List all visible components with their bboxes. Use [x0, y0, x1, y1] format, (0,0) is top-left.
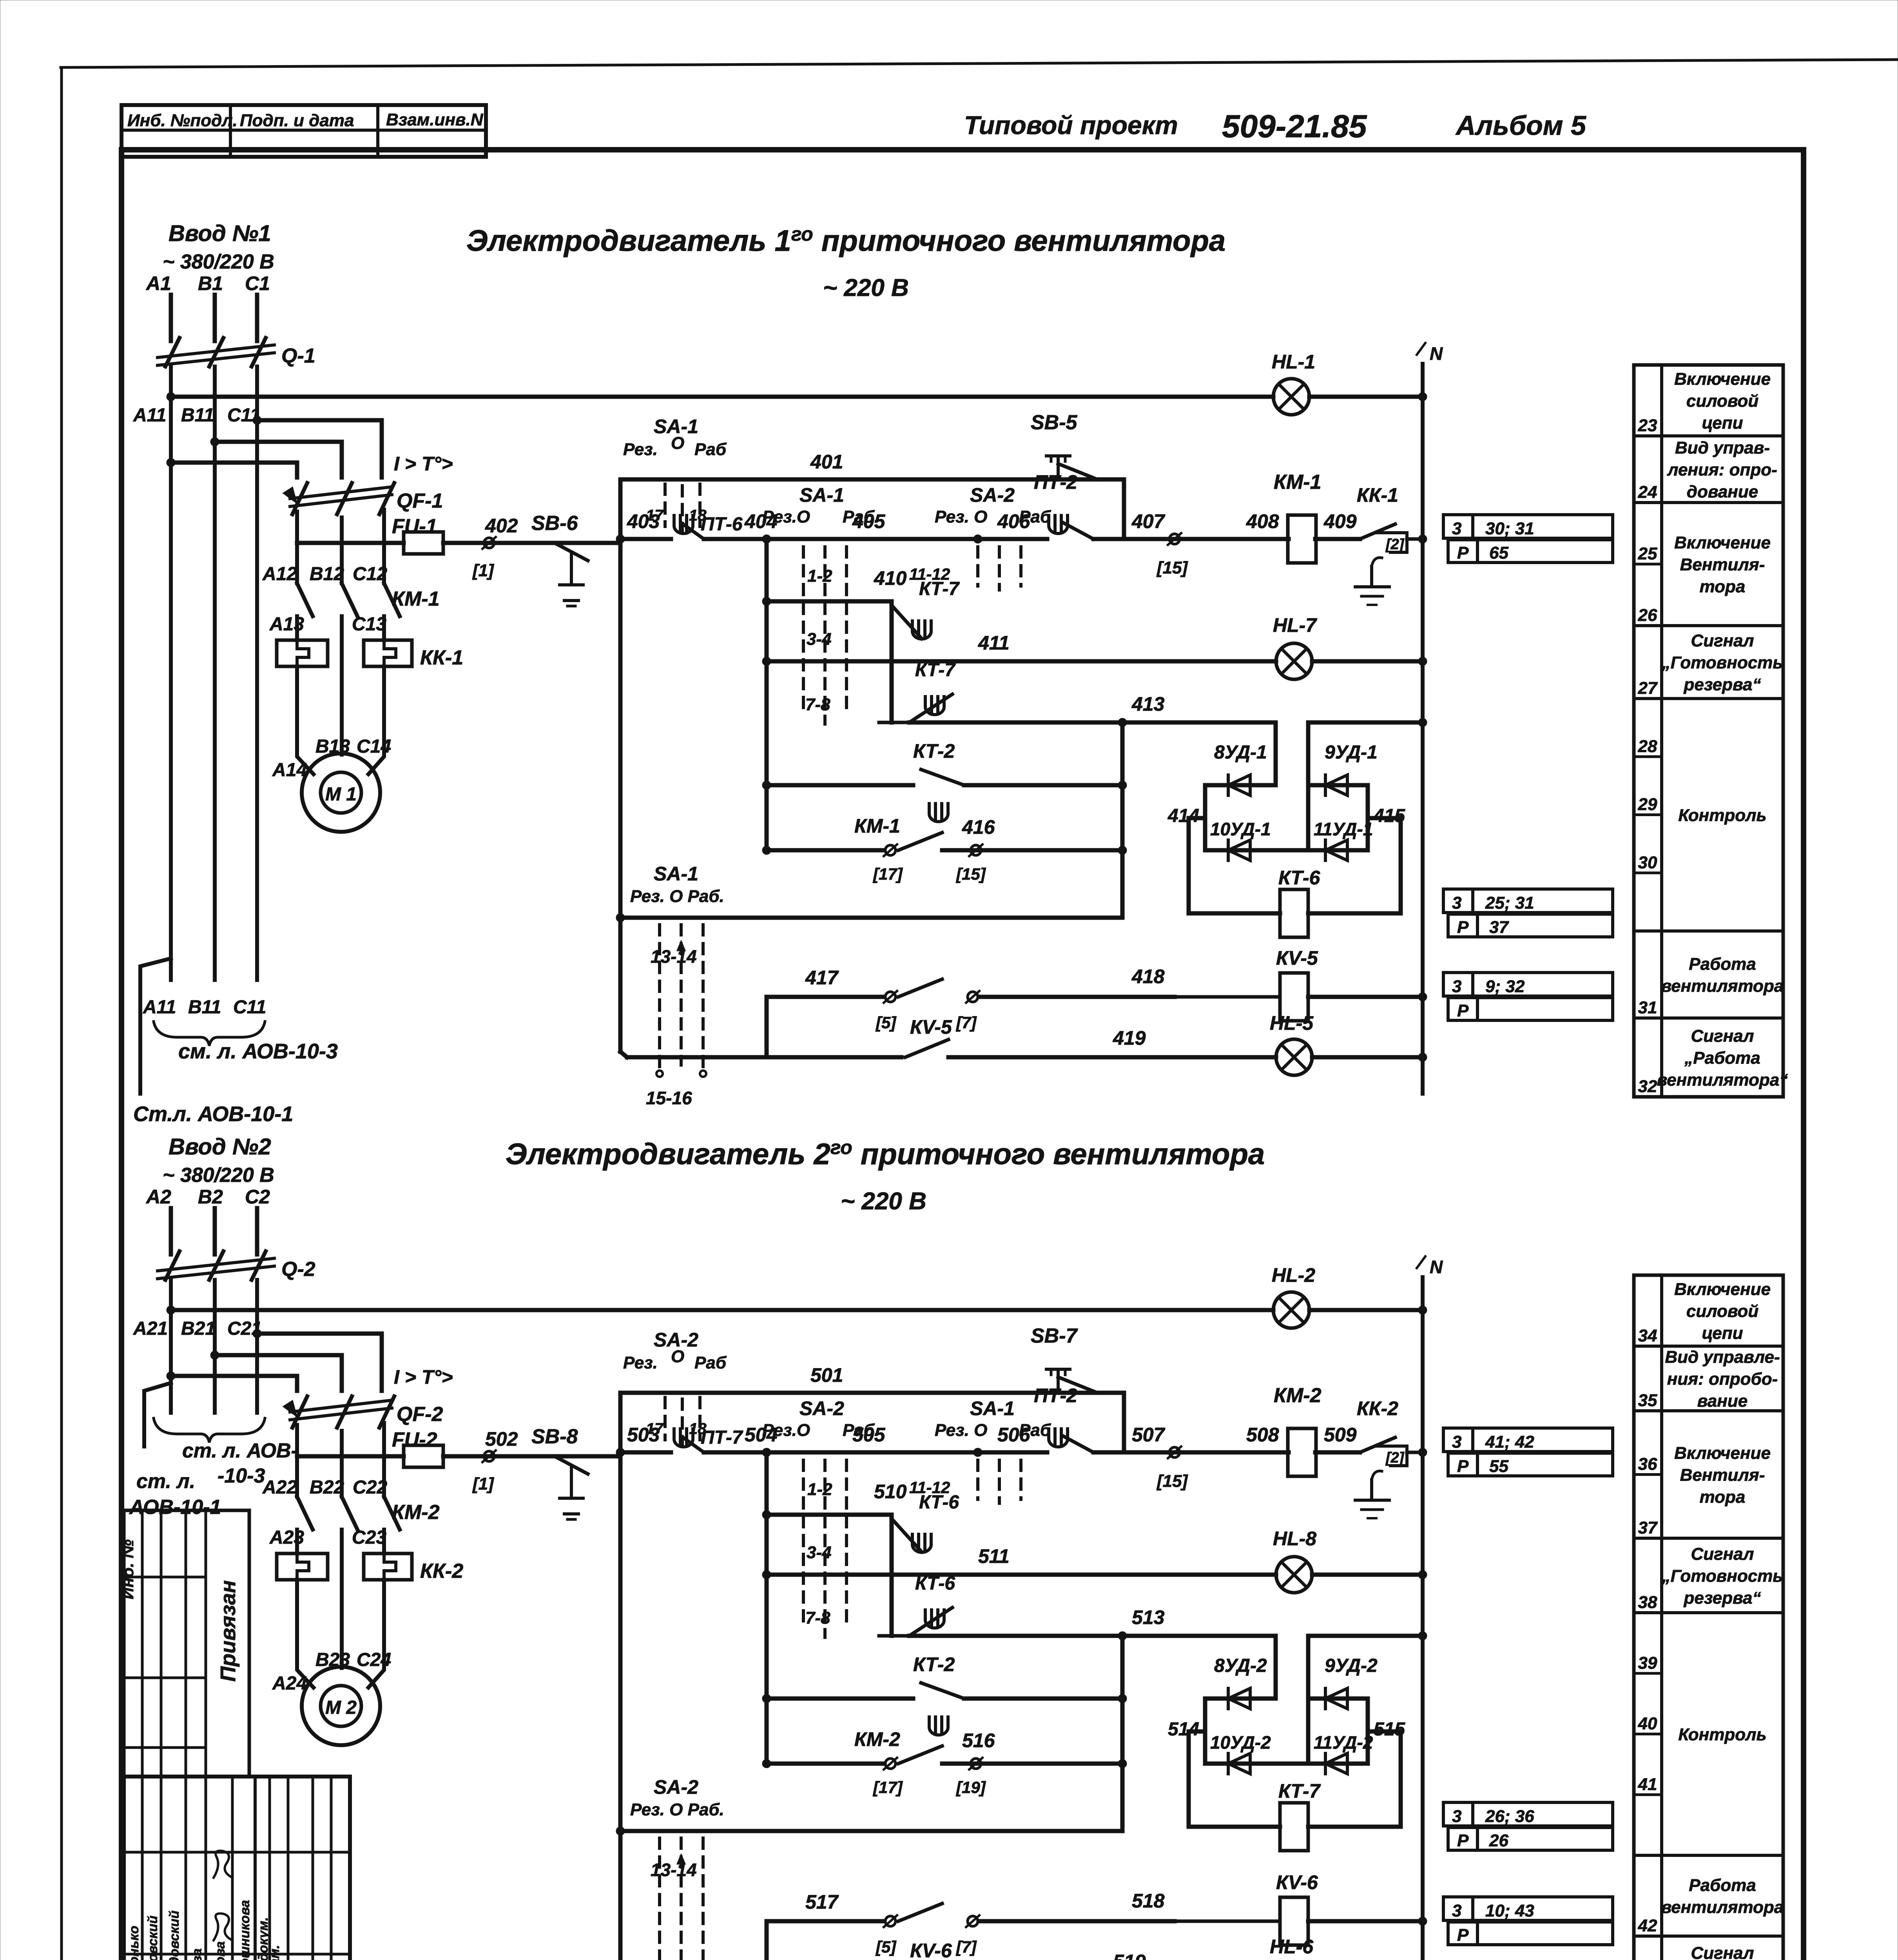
svg-text:24: 24	[1638, 483, 1657, 502]
diode 10УД-1	[1205, 848, 1308, 853]
junction	[253, 1329, 261, 1338]
node 514	[1203, 1699, 1207, 1764]
wire phase A vertical	[169, 1208, 173, 1254]
wire phase B below switch	[213, 367, 217, 980]
svg-text:КК-1: КК-1	[420, 646, 463, 669]
svg-text:КТ-7: КТ-7	[915, 660, 956, 681]
contactor coil КМ-1	[1288, 515, 1316, 563]
svg-text:Н.контр. Лондовский: Н.контр. Лондовский	[167, 1911, 182, 1960]
svg-text:~ 380/220 В: ~ 380/220 В	[163, 250, 274, 273]
svg-text:Рез. О Раб.: Рез. О Раб.	[630, 1800, 724, 1819]
svg-text:28: 28	[1638, 737, 1657, 756]
svg-text:1-2: 1-2	[807, 1480, 832, 1499]
svg-text:SA-1: SA-1	[654, 863, 698, 885]
wire row 513	[909, 1634, 1276, 1638]
wire main control rail	[620, 1450, 671, 1455]
wire branch corner to rail	[1122, 479, 1126, 539]
svg-text:КТ-2: КТ-2	[913, 740, 955, 762]
diode 10УД-2	[1205, 1762, 1308, 1766]
svg-text:510: 510	[874, 1481, 907, 1503]
wire branch corner to rail	[1122, 1393, 1126, 1452]
svg-text:402: 402	[485, 515, 518, 537]
svg-text:Подп. Дата Зам.: Подп. Дата Зам.	[267, 1945, 282, 1960]
svg-text:В12: В12	[310, 564, 344, 584]
svg-text:Включение: Включение	[1674, 533, 1771, 552]
wire row 13-14	[620, 916, 1122, 920]
svg-text:36: 36	[1638, 1455, 1657, 1474]
svg-text:8УД-1: 8УД-1	[1214, 742, 1267, 763]
junction	[1418, 718, 1427, 727]
svg-text:Рез.: Рез.	[623, 1353, 658, 1372]
svg-text:HL-5: HL-5	[1270, 1012, 1314, 1034]
svg-text:N: N	[1430, 343, 1443, 364]
svg-text:30; 31: 30; 31	[1485, 519, 1534, 538]
svg-text:[7]: [7]	[955, 1013, 977, 1032]
svg-text:А12: А12	[262, 564, 297, 584]
wire riser bottom sub	[765, 1921, 769, 1960]
wire bridge feeder left	[1274, 722, 1278, 785]
svg-text:КМ-1: КМ-1	[854, 815, 900, 837]
svg-text:Рез.: Рез.	[623, 440, 658, 459]
selector bottom markers 15-16	[656, 1071, 663, 1077]
selector SA-1 dashed contacts	[976, 1460, 979, 1499]
contactor КМ-1 main contacts	[297, 583, 313, 616]
wire control tap	[297, 1454, 404, 1459]
svg-text:КМ-1: КМ-1	[1274, 471, 1322, 494]
main title block	[124, 1777, 350, 1960]
wire fuse to button	[443, 1454, 620, 1459]
svg-text:Рез. О Раб.: Рез. О Раб.	[630, 887, 724, 906]
svg-text:Привязан: Привязан	[216, 1580, 240, 1682]
svg-text:508: 508	[1246, 1424, 1279, 1446]
breaker QF-2	[290, 1400, 392, 1412]
fuse FU-2	[404, 1445, 443, 1467]
wire outgoing to sheet АОВ-10-1	[140, 958, 171, 1094]
thermal relay КК-1 heater C	[364, 640, 412, 666]
svg-text:Рез. О: Рез. О	[935, 507, 987, 526]
junction	[762, 535, 771, 543]
wire phase C below switch	[255, 1280, 259, 1413]
reference box 30; 31 65	[1443, 515, 1613, 538]
svg-text:41; 42: 41; 42	[1485, 1432, 1534, 1452]
svg-text:ления: опро-: ления: опро-	[1667, 460, 1777, 479]
svg-text:ния: опробо-: ния: опробо-	[1667, 1370, 1778, 1389]
lamp HL-8 junction	[1418, 1570, 1427, 1579]
svg-text:КК-1: КК-1	[1357, 484, 1398, 506]
marker circle	[1169, 1447, 1180, 1457]
wire phase A below switch	[169, 367, 173, 980]
svg-text:509-21.85: 509-21.85	[1222, 109, 1367, 144]
svg-text:вентилятора: вентилятора	[1661, 1898, 1784, 1917]
svg-text:С12: С12	[353, 564, 387, 584]
svg-text:С23: С23	[352, 1527, 386, 1548]
svg-text:КМ-1: КМ-1	[392, 588, 440, 610]
svg-text:37: 37	[1638, 1518, 1658, 1537]
svg-text:10; 43: 10; 43	[1485, 1901, 1534, 1920]
svg-text:37: 37	[1489, 918, 1509, 937]
svg-text:42: 42	[1638, 1916, 1657, 1935]
svg-text:Инб. №: Инб. №	[118, 1539, 137, 1599]
svg-text:С22: С22	[353, 1477, 387, 1498]
svg-text:518: 518	[1132, 1890, 1165, 1912]
lamp HL-8	[1276, 1557, 1312, 1593]
svg-text:15-16: 15-16	[646, 1088, 692, 1108]
lamp HL-5	[1276, 1039, 1312, 1075]
svg-text:HL-1: HL-1	[1272, 351, 1315, 373]
svg-text:Электродвигатель 2го приточног: Электродвигатель 2го приточного вентилят…	[506, 1136, 1265, 1171]
wire row 13-14	[620, 1829, 1122, 1833]
node 414	[1203, 785, 1207, 850]
wire control tap	[297, 541, 404, 545]
svg-text:[17]: [17]	[872, 865, 903, 883]
svg-text:ПТ-2: ПТ-2	[1034, 471, 1077, 493]
wire phase A below switch	[169, 1280, 173, 1413]
button SB-8	[555, 1456, 588, 1474]
svg-text:27: 27	[1638, 679, 1658, 698]
wire phase B below switch	[213, 1280, 217, 1413]
wire heaters to motor	[297, 1580, 314, 1688]
svg-text:SB-5: SB-5	[1031, 411, 1078, 434]
motor М 1	[302, 753, 380, 832]
svg-text:А24: А24	[272, 1673, 307, 1694]
contact КТ-6	[925, 1610, 944, 1628]
svg-text:Раб: Раб	[694, 1353, 727, 1372]
svg-text:КТ-6: КТ-6	[1278, 867, 1321, 889]
marker circle	[484, 538, 494, 548]
junction	[1418, 1632, 1427, 1640]
svg-text:506: 506	[997, 1424, 1031, 1446]
svg-text:7-8: 7-8	[805, 1608, 830, 1628]
N bus	[1421, 1277, 1425, 1960]
wire riser A	[765, 539, 769, 850]
junction	[167, 458, 175, 467]
svg-text:А14: А14	[272, 760, 307, 780]
svg-text:КТ-6: КТ-6	[915, 1573, 955, 1594]
svg-text:А1: А1	[145, 272, 171, 294]
wire to thermal elements	[295, 616, 299, 640]
svg-text:1-2: 1-2	[807, 566, 832, 586]
svg-text:Альбом 5: Альбом 5	[1455, 110, 1586, 141]
timer coil КТ-7	[1189, 1731, 1280, 1827]
thermal contact КК-2 ground symbol	[1370, 1480, 1373, 1499]
svg-text:SA-1: SA-1	[799, 484, 844, 506]
svg-text:416: 416	[962, 816, 995, 838]
svg-text:10УД-2: 10УД-2	[1210, 1732, 1271, 1753]
wire rail to N bus	[1407, 1451, 1423, 1454]
contact КТ-7	[925, 697, 944, 715]
svg-text:вентилятора“: вентилятора“	[1657, 1071, 1788, 1090]
svg-text:Вид управ-: Вид управ-	[1675, 438, 1770, 457]
svg-text:дование: дование	[1687, 482, 1758, 501]
title block signature grid	[141, 1777, 144, 1960]
wire phase A vertical	[169, 295, 173, 341]
function table frame	[1634, 365, 1783, 1097]
selector SA-2 dashed contacts	[802, 1460, 805, 1622]
svg-text:34: 34	[1638, 1326, 1657, 1345]
thermal relay КК-2 heater C	[364, 1553, 412, 1580]
wire rail segment to coil	[1093, 537, 1289, 541]
branch wire 501	[620, 1391, 1124, 1395]
branch wire 401	[620, 477, 1124, 482]
svg-text:509: 509	[1324, 1424, 1357, 1446]
diode 8УД-2	[1205, 1697, 1276, 1701]
svg-text:А11: А11	[133, 405, 167, 426]
wire coil to thermal contact	[1315, 537, 1360, 541]
wire riser A	[765, 1452, 769, 1764]
svg-text:419: 419	[1113, 1027, 1146, 1049]
svg-text:ПТ-2: ПТ-2	[1034, 1385, 1077, 1406]
svg-text:3: 3	[1452, 977, 1461, 996]
wire number 419 to lamp	[948, 1055, 1276, 1060]
N bus	[1421, 364, 1425, 1094]
svg-text:SA-1: SA-1	[970, 1397, 1015, 1419]
contact КТ-6	[890, 1515, 894, 1636]
timer coil КТ-6	[1189, 818, 1280, 913]
svg-text:408: 408	[1246, 510, 1279, 532]
switch Q-2	[158, 1258, 274, 1271]
contact КМ-1 row	[767, 848, 884, 853]
svg-text:ст. л. АОВ-: ст. л. АОВ-	[182, 1439, 298, 1462]
svg-text:~ 220 В: ~ 220 В	[823, 274, 909, 301]
wire phase C vertical	[255, 295, 259, 341]
svg-text:HL-7: HL-7	[1273, 614, 1317, 636]
svg-text:Включение: Включение	[1674, 1280, 1771, 1299]
svg-text:О: О	[671, 434, 684, 453]
svg-text:26: 26	[1638, 606, 1657, 625]
svg-text:Провер. Волкова: Провер. Волкова	[213, 1941, 228, 1960]
svg-text:Типовой проект: Типовой проект	[964, 111, 1178, 140]
svg-text:516: 516	[962, 1730, 995, 1751]
svg-text:[1]: [1]	[472, 1474, 494, 1494]
svg-text:силовой: силовой	[1686, 392, 1758, 411]
reference box 9; 32	[1443, 973, 1613, 996]
svg-text:40: 40	[1638, 1714, 1657, 1733]
lamp HL-7	[1276, 643, 1312, 679]
svg-text:413: 413	[1131, 693, 1165, 715]
wire to thermal elements	[295, 1530, 299, 1553]
wire number 518	[980, 1919, 1175, 1924]
relay coil КV-5 row	[1175, 995, 1280, 999]
reference box 25; 31 37	[1443, 889, 1613, 913]
svg-text:Работа: Работа	[1689, 955, 1756, 974]
svg-text:FU-1: FU-1	[392, 515, 437, 538]
wire number 418	[980, 995, 1175, 999]
border frame outer	[61, 60, 1898, 67]
svg-text:Рез.О: Рез.О	[762, 1421, 810, 1440]
svg-text:В2: В2	[198, 1186, 223, 1208]
svg-text:см. л. АОВ-10-3: см. л. АОВ-10-3	[178, 1040, 338, 1063]
svg-text:[7]: [7]	[955, 1938, 977, 1956]
wire breaker outputs down	[295, 512, 299, 583]
svg-text:11УД-1: 11УД-1	[1314, 819, 1373, 839]
button SB-6	[555, 543, 588, 561]
junction	[1118, 718, 1127, 727]
thermal relay КК-1 heater A	[277, 640, 328, 666]
marker circle	[1169, 534, 1180, 544]
junction	[616, 535, 625, 543]
svg-text:25: 25	[1638, 544, 1657, 563]
svg-text:цепи: цепи	[1702, 414, 1743, 433]
junction	[210, 437, 219, 446]
svg-text:ст. л.: ст. л.	[136, 1470, 195, 1493]
wire ladder left riser	[618, 1393, 623, 1960]
svg-text:[2]: [2]	[1385, 1450, 1405, 1466]
svg-text:Контроль: Контроль	[1678, 1725, 1766, 1744]
svg-text:23: 23	[1638, 416, 1657, 435]
thermal relay КК-2 heater A	[277, 1553, 328, 1580]
svg-text:3: 3	[1452, 1432, 1461, 1452]
svg-text:А2: А2	[145, 1186, 171, 1208]
selector dashed contacts 13-14	[658, 1838, 661, 1960]
wire phase C below switch	[255, 367, 259, 980]
svg-text:QF-2: QF-2	[397, 1403, 443, 1426]
svg-text:Проект. Шапошникова: Проект. Шапошникова	[237, 1900, 252, 1960]
svg-text:3: 3	[1452, 1807, 1461, 1826]
svg-text:КМ-2: КМ-2	[392, 1501, 440, 1524]
svg-text:КТ-7: КТ-7	[919, 579, 960, 599]
wire breaker outputs down	[295, 1425, 299, 1497]
svg-text:Контроль: Контроль	[1678, 806, 1766, 825]
switch Q-1	[158, 345, 274, 358]
svg-text:3: 3	[1452, 893, 1461, 913]
svg-text:С2: С2	[245, 1186, 270, 1208]
svg-text:[5]: [5]	[875, 1938, 897, 1956]
contact КТ-2 row	[767, 1697, 913, 1701]
svg-text:38: 38	[1638, 1593, 1657, 1612]
junction	[210, 1351, 219, 1359]
svg-text:3: 3	[1452, 1901, 1461, 1920]
svg-text:[17]: [17]	[872, 1778, 903, 1797]
svg-text:Включение: Включение	[1674, 370, 1771, 389]
svg-text:13-14: 13-14	[651, 946, 697, 967]
svg-text:С1: С1	[245, 272, 270, 294]
svg-text:Q-2: Q-2	[281, 1258, 315, 1281]
wire rail to N bus	[1407, 537, 1423, 541]
wire riser B	[1120, 1636, 1125, 1831]
svg-text:8УД-2: 8УД-2	[1214, 1655, 1267, 1676]
svg-text:цепи: цепи	[1702, 1324, 1743, 1343]
wire phase B vertical	[213, 1208, 217, 1254]
svg-text:С11: С11	[233, 997, 266, 1018]
svg-text:505: 505	[852, 1424, 886, 1446]
svg-text:Сигнал: Сигнал	[1691, 1544, 1754, 1564]
wire outgoing stub section 2	[144, 1383, 171, 1446]
svg-text:3-4: 3-4	[807, 1543, 832, 1562]
svg-text:„Работа: „Работа	[1684, 1049, 1760, 1068]
svg-text:Ст.л. АОВ-10-1: Ст.л. АОВ-10-1	[133, 1102, 293, 1126]
svg-text:В21: В21	[181, 1318, 216, 1339]
motor М 2	[302, 1667, 380, 1745]
node 415	[1366, 785, 1370, 850]
svg-text:Р: Р	[1457, 1457, 1469, 1476]
svg-text:SA-2: SA-2	[799, 1397, 844, 1419]
svg-text:7-8: 7-8	[805, 695, 830, 714]
diode 11УД-1	[1308, 848, 1368, 853]
svg-text:410: 410	[874, 567, 907, 589]
contact КМ-2 row	[767, 1762, 884, 1766]
svg-text:3: 3	[1452, 519, 1461, 538]
svg-text:409: 409	[1323, 510, 1357, 532]
svg-text:507: 507	[1132, 1424, 1166, 1446]
relay coil КV-5	[1280, 973, 1308, 1021]
svg-text:13-14: 13-14	[651, 1860, 697, 1880]
reference box 10; 43	[1443, 1897, 1613, 1920]
svg-text:[15]: [15]	[955, 865, 986, 883]
svg-text:Рук.гр. Волкова: Рук.гр. Волкова	[190, 1948, 205, 1960]
svg-text:HL-8: HL-8	[1273, 1528, 1316, 1550]
junction	[1118, 1632, 1127, 1640]
svg-text:Вентиля-: Вентиля-	[1680, 1466, 1765, 1485]
svg-text:Сигнал: Сигнал	[1691, 631, 1754, 650]
svg-text:Включение: Включение	[1674, 1444, 1771, 1463]
wire 413 right segment to N	[1308, 720, 1423, 725]
junction	[973, 1448, 982, 1457]
junction	[616, 1448, 625, 1457]
svg-text:[19]: [19]	[955, 1778, 986, 1797]
svg-text:519: 519	[1113, 1951, 1146, 1960]
svg-text:вание: вание	[1697, 1392, 1748, 1411]
svg-text:3-4: 3-4	[807, 630, 832, 649]
svg-text:9; 32: 9; 32	[1485, 977, 1525, 996]
contact КМ-1 in row 417	[885, 992, 896, 1002]
svg-text:КV-5: КV-5	[910, 1016, 952, 1038]
wire bridge feeder right	[1306, 722, 1311, 850]
lamp HL-7 junction	[1418, 657, 1427, 666]
svg-text:[5]: [5]	[875, 1013, 897, 1032]
diode 11УД-2	[1308, 1762, 1368, 1766]
wire riser bottom sub	[765, 997, 769, 1057]
svg-text:I > T°>: I > T°>	[394, 1366, 453, 1388]
svg-text:С24: С24	[357, 1650, 391, 1670]
svg-text:КМ-2: КМ-2	[1274, 1384, 1322, 1407]
svg-text:SA-2: SA-2	[654, 1776, 698, 1798]
svg-text:КV-6: КV-6	[910, 1940, 952, 1960]
marker circle	[484, 1451, 494, 1461]
wire row 517	[767, 1919, 884, 1924]
thermal contact КК-1 ground symbol	[1370, 566, 1373, 586]
contact КV-5	[627, 1055, 901, 1060]
svg-text:„Готовность: „Готовность	[1662, 1566, 1783, 1586]
svg-text:[15]: [15]	[1156, 1472, 1188, 1491]
svg-text:В11: В11	[181, 405, 214, 426]
junction	[1418, 1448, 1427, 1457]
svg-text:31: 31	[1638, 998, 1657, 1017]
button SB-7	[1057, 1369, 1060, 1390]
wire row 411 to lamp	[767, 659, 1276, 664]
wire row 410	[767, 599, 892, 604]
svg-text:Сигнал: Сигнал	[1691, 1027, 1754, 1046]
selector SA-2 dashed contacts	[976, 547, 979, 586]
wire tap phase C to breaker	[257, 1334, 382, 1391]
wire tap phase A to breaker	[171, 1376, 297, 1391]
contact ПТ-2	[1049, 1429, 1068, 1447]
contact ПТ-7	[674, 1429, 693, 1447]
svg-text:КК-2: КК-2	[1357, 1397, 1398, 1419]
svg-text:N: N	[1430, 1257, 1443, 1277]
wire 413 right segment to N	[1308, 1634, 1423, 1638]
svg-text:М 1: М 1	[325, 784, 357, 805]
node 515	[1366, 1699, 1370, 1764]
svg-text:М 2: М 2	[325, 1697, 357, 1718]
svg-text:Вид управле-: Вид управле-	[1665, 1348, 1780, 1367]
svg-text:Рез. О: Рез. О	[935, 1421, 987, 1440]
wire heaters to motor	[297, 666, 314, 774]
wire rail segment to coil	[1093, 1450, 1289, 1455]
svg-text:КК-2: КК-2	[420, 1560, 463, 1583]
svg-text:9УД-2: 9УД-2	[1325, 1655, 1378, 1676]
junction	[167, 392, 175, 401]
svg-text:Подп. и дата: Подп. и дата	[240, 111, 354, 130]
